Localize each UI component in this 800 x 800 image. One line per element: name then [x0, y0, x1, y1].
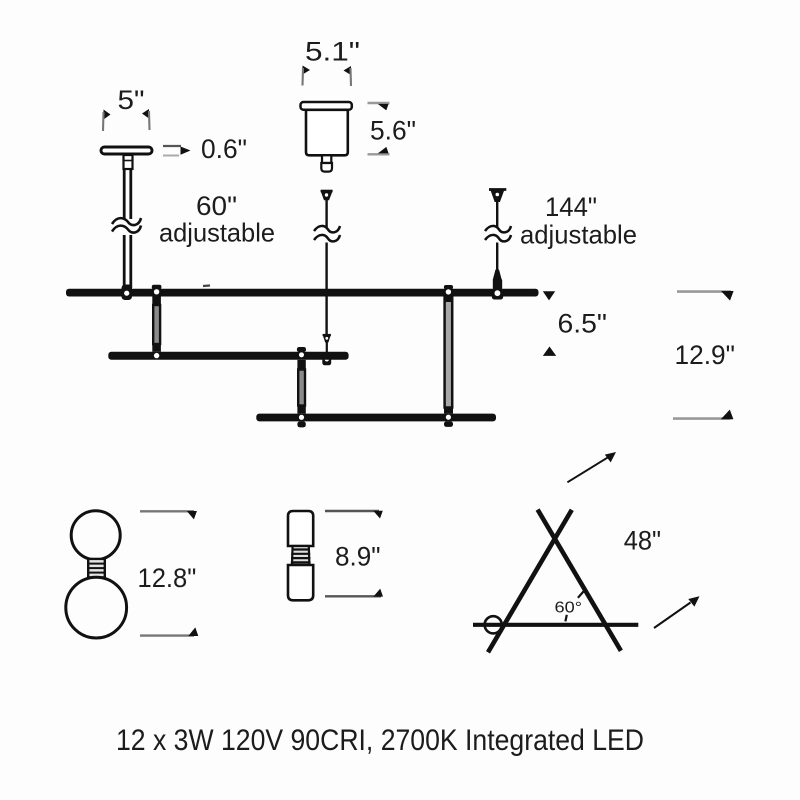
dim flag left of 5": [103, 110, 111, 132]
rod 3: top bar to bottom bar: [444, 285, 453, 427]
svg-text:12.8": 12.8": [138, 563, 197, 593]
right cable lower segment: [496, 243, 498, 273]
left canopy stem collar: [124, 155, 133, 169]
left canopy: [101, 147, 152, 154]
5.6" top dim mark: [368, 103, 390, 110]
12.9" top dim mark: [677, 291, 734, 301]
dimension label 48": [624, 526, 661, 556]
6.5" bottom arrow: [543, 347, 556, 356]
angle arc ticks: [565, 590, 584, 621]
faint dash above top bar: [203, 284, 210, 287]
right cable dot on top bar: [495, 290, 501, 296]
svg-text:60": 60": [196, 191, 237, 221]
svg-text:48": 48": [624, 526, 661, 556]
svg-text:0.6": 0.6": [201, 134, 247, 164]
svg-text:12.9": 12.9": [675, 340, 736, 370]
dimension label 12.8": [138, 563, 197, 593]
center cable break symbol: [314, 226, 340, 241]
center canopy flange: [301, 102, 352, 110]
center cord gripper cone: [321, 191, 333, 200]
svg-text:12 x 3W 120V 90CRI, 2700K Inte: 12 x 3W 120V 90CRI, 2700K Integrated LED: [116, 724, 644, 757]
svg-text:144": 144": [545, 192, 597, 222]
svg-text:5.6": 5.6": [370, 116, 416, 146]
rod 2: middle bar to bottom bar: [297, 347, 306, 427]
lower diagonal dim arrow: [654, 596, 700, 628]
angle label 60deg: [555, 600, 583, 617]
right cable top gripper cone: [489, 190, 506, 203]
pendant bottom globe: [66, 577, 127, 638]
horizontal rod: [473, 623, 638, 627]
center canopy stem: [321, 155, 332, 171]
dim flag right of 5.1": [344, 66, 352, 86]
svg-text:adjustable: adjustable: [520, 220, 637, 250]
12.9" bottom dim mark: [673, 410, 733, 420]
pendant connector: [88, 559, 105, 578]
dim flag left of 5.1": [303, 66, 311, 86]
left rod lower segment: [124, 235, 131, 288]
svg-text:5": 5": [118, 85, 145, 115]
svg-text:60°: 60°: [555, 600, 583, 617]
center cable upper segment: [325, 200, 327, 227]
dimension label 6.5": [558, 309, 608, 339]
0.6" thickness dim lines: [163, 146, 191, 156]
bottom bar: [256, 414, 496, 422]
dimension label 5": [118, 85, 145, 115]
center canopy body: [306, 110, 348, 156]
8.9" top dim mark: [325, 511, 383, 519]
rod diagonal right: [538, 510, 621, 651]
svg-text:6.5": 6.5": [558, 309, 608, 339]
right cable cylinder connector: [493, 270, 502, 281]
svg-text:8.9": 8.9": [335, 542, 381, 572]
rod diagonal left: [488, 510, 572, 653]
left rod break symbol: [112, 218, 141, 233]
dimension label 5.6": [370, 116, 416, 146]
dimension label 12.9": [675, 340, 736, 370]
svg-text:5.1": 5.1": [305, 37, 360, 67]
6.5" top arrow: [543, 291, 555, 300]
right cable upper segment: [496, 202, 498, 227]
rod 1: top bar to middle bar: [152, 285, 162, 359]
5.6" bottom dim mark: [368, 147, 390, 154]
dimension label 0.6": [201, 134, 247, 164]
12.8" top dim mark: [140, 511, 197, 519]
dimension label 5.1": [305, 37, 360, 67]
middle bar: [108, 352, 348, 360]
caption: [116, 724, 644, 757]
upper diagonal dim arrow: [567, 452, 616, 482]
8.9" bottom dim mark: [325, 589, 383, 597]
dimension label 8.9": [335, 542, 381, 572]
center cable lower gripper cone: [323, 335, 331, 352]
svg-text:adjustable: adjustable: [159, 218, 275, 248]
socket top cylinder: [288, 511, 313, 546]
label 60" adjustable: [159, 191, 275, 248]
left rod connector on top bar: [122, 285, 133, 301]
center cable nub below middle bar: [322, 357, 331, 365]
socket bottom cylinder: [288, 565, 313, 600]
right cable break symbol: [485, 226, 511, 241]
12.8" bottom dim mark: [140, 627, 198, 636]
socket ridged waist: [291, 546, 311, 565]
top bar: [66, 289, 539, 297]
label 144" adjustable: [520, 192, 637, 250]
center cable lower segment: [325, 243, 327, 335]
dim flag right of 5": [142, 109, 150, 130]
pendant top globe: [71, 511, 120, 560]
left rod upper segment: [124, 168, 131, 219]
end loop circle: [485, 616, 502, 633]
